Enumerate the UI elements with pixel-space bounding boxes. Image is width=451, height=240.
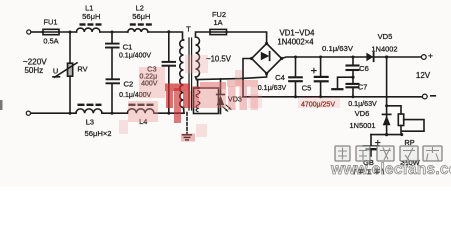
capacitor C6 — [347, 56, 359, 83]
capacitor C2 — [107, 79, 120, 113]
wire bottom rail — [31, 112, 76, 114]
wire bridge left to negative rail — [243, 59, 252, 97]
fuse FU1 — [43, 29, 59, 34]
svg-text:VD5: VD5 — [378, 32, 393, 41]
node VD6 branch junction on positive rail — [385, 55, 388, 58]
node C3 top junction — [167, 30, 170, 33]
scan artifact left edge — [0, 100, 3, 110]
svg-text:0.1μ/400V: 0.1μ/400V — [119, 53, 151, 60]
fuse FU2 — [210, 29, 227, 34]
svg-text:C1: C1 — [123, 43, 133, 52]
wire L2 to transformer primary — [148, 32, 183, 40]
svg-text:FU1: FU1 — [44, 18, 58, 27]
wire midpoint stub with end bar — [332, 77, 353, 89]
svg-text:VD6: VD6 — [355, 109, 370, 118]
wire battery top wire — [371, 134, 402, 136]
svg-text:~10.5V: ~10.5V — [206, 55, 232, 64]
varistor RV — [53, 32, 77, 113]
svg-text:56μH×2: 56μH×2 — [85, 129, 112, 138]
svg-text:C4: C4 — [275, 73, 285, 82]
minus sign — [431, 95, 436, 97]
ground (transformer shield) — [183, 113, 192, 140]
svg-text:12V: 12V — [416, 71, 431, 80]
svg-text:C5: C5 — [302, 84, 312, 93]
svg-text:L3: L3 — [86, 117, 94, 126]
inductor L3 — [76, 105, 102, 113]
label (battery) small chinese note — [354, 169, 385, 175]
node input terminal L (bottom) — [26, 111, 30, 115]
node RP branch junction — [385, 104, 388, 107]
watermark: center red logo — [119, 55, 340, 142]
svg-text:www.elecfans.com: www.elecfans.com — [330, 161, 451, 178]
node input terminal L (top) — [27, 30, 31, 34]
svg-text:C7: C7 — [358, 82, 368, 91]
svg-text:T: T — [186, 25, 191, 34]
inductor L4 — [128, 105, 154, 113]
capacitor C7 — [347, 84, 359, 98]
diode VD5 — [366, 53, 373, 62]
wire to RP — [387, 106, 401, 114]
wire FU1 to L1 — [59, 31, 77, 33]
node VD6 bottom junction — [385, 133, 388, 136]
LED VD3 — [217, 79, 231, 114]
wire positive rail — [282, 57, 422, 59]
svg-text:0.5A: 0.5A — [43, 37, 58, 46]
svg-text:+: + — [428, 51, 433, 61]
transformer T primary winding — [180, 40, 184, 113]
capacitor C4 — [289, 56, 302, 99]
svg-text:C6: C6 — [359, 64, 369, 73]
battery GB — [363, 135, 380, 156]
svg-text:1N4002×4: 1N4002×4 — [277, 37, 314, 46]
svg-text:0.1μ/63V: 0.1μ/63V — [348, 100, 377, 108]
svg-text:0.1μ/63V: 0.1μ/63V — [322, 44, 354, 53]
inductor L1 — [77, 25, 102, 33]
resistor box (indicator network) — [194, 80, 219, 114]
node C3 bottom junction — [167, 112, 170, 115]
svg-text:RV: RV — [77, 65, 87, 74]
svg-text:50Hz: 50Hz — [24, 66, 43, 75]
wire L4 to transformer primary bottom — [154, 112, 184, 114]
svg-text:0.1μ/63V: 0.1μ/63V — [258, 84, 287, 92]
transformer T core — [189, 38, 192, 110]
node output terminal plus — [421, 55, 426, 60]
resistor RP — [398, 114, 424, 135]
inductor L2 — [128, 25, 152, 33]
node C1 top junction — [111, 31, 114, 34]
svg-text:1N4002: 1N4002 — [372, 44, 398, 53]
svg-text:56μH: 56μH — [82, 12, 100, 21]
node output terminal minus — [422, 94, 427, 99]
wire L1 to L2 — [100, 31, 128, 33]
wire secondary bottom to bridge bottom — [197, 74, 267, 80]
watermark: bottom gray logo glyphs — [335, 146, 442, 161]
capacitor C3 — [163, 32, 175, 113]
node C2 bottom junction — [111, 112, 114, 115]
wire FU2 to bridge top — [227, 32, 267, 44]
capacitor C5 (electrolytic) — [312, 56, 328, 99]
capacitor C1 — [106, 32, 119, 78]
svg-text:1N5001: 1N5001 — [350, 121, 376, 130]
wire top rail left segment — [31, 31, 43, 33]
wire L3 to L4 — [102, 112, 128, 114]
transformer T secondary winding — [196, 32, 211, 80]
node RP bottom junction — [400, 133, 403, 136]
node RV bottom junction — [69, 112, 72, 115]
svg-text:U: U — [53, 67, 58, 76]
wire negative rail — [243, 96, 422, 98]
wire VD6 branch vertical — [386, 57, 388, 135]
svg-text:56μH: 56μH — [132, 12, 150, 21]
svg-text:VD1~VD4: VD1~VD4 — [280, 29, 316, 38]
node RV top junction — [69, 31, 72, 34]
svg-text:C2: C2 — [124, 80, 134, 89]
diode VD6 — [383, 114, 391, 125]
node C6/C7 midpoint junction — [351, 76, 354, 79]
bridge rectifier VD1-VD4 — [250, 42, 283, 75]
svg-text:1A: 1A — [213, 18, 222, 27]
